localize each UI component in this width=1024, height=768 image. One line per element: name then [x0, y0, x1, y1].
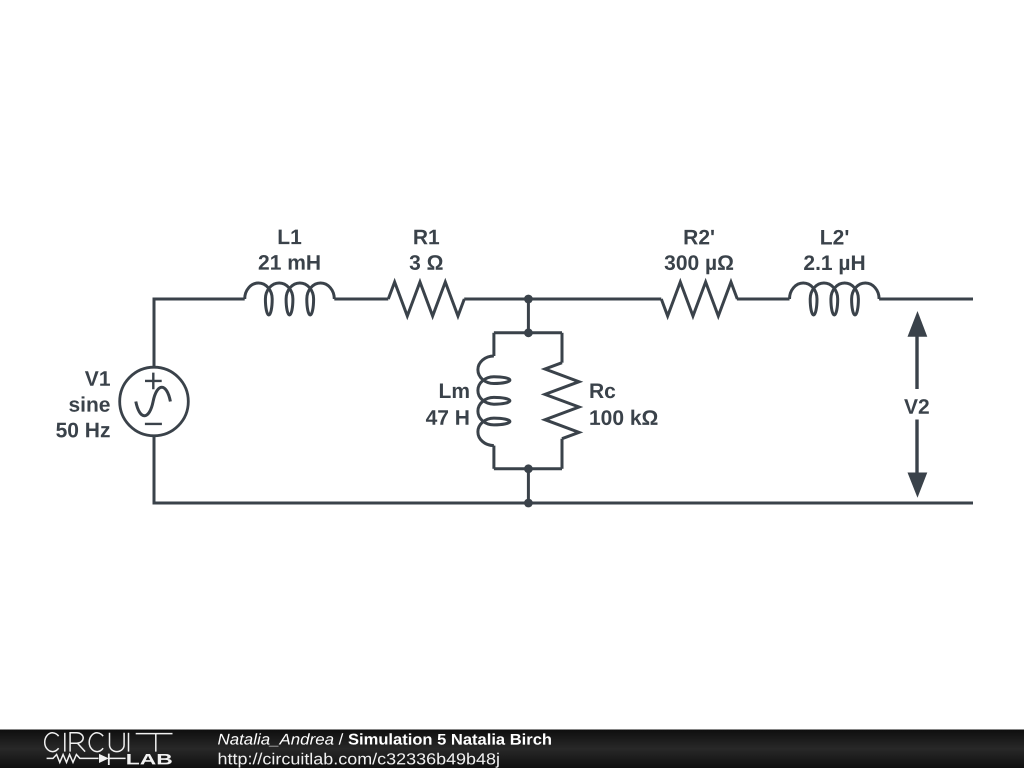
inductor Lm	[478, 333, 510, 469]
voltage annotation arrow V2	[908, 311, 928, 498]
node junction on bottom rail	[524, 499, 533, 508]
svg-text:47 H: 47 H	[426, 407, 470, 430]
inductor L1	[245, 283, 335, 315]
wire R2' to L2'	[737, 298, 790, 301]
wire shunt top lid	[494, 331, 562, 334]
svg-text:sine: sine	[68, 394, 110, 417]
wire R1 to R2' through node	[464, 298, 661, 301]
wire L1 to R1	[334, 298, 388, 301]
svg-text:R1: R1	[413, 226, 440, 249]
svg-text:V1: V1	[85, 368, 111, 391]
wire bottom rail	[154, 436, 973, 503]
svg-text:LAB: LAB	[126, 751, 173, 768]
wire shunt bottom to bottom rail	[527, 469, 530, 503]
svg-text:21 mH: 21 mH	[258, 252, 321, 275]
svg-text:R2': R2'	[683, 226, 715, 249]
svg-text:L1: L1	[277, 226, 302, 249]
node junction shunt bottom	[524, 464, 533, 473]
svg-text:50 Hz: 50 Hz	[56, 419, 111, 442]
svg-text:300 µΩ: 300 µΩ	[664, 252, 734, 275]
svg-text:2.1 µH: 2.1 µH	[803, 252, 865, 275]
svg-text:http://circuitlab.com/c32336b4: http://circuitlab.com/c32336b49b48j	[217, 751, 500, 768]
wire top-left corner from V1 to L1	[154, 299, 245, 367]
svg-text:V2: V2	[904, 396, 930, 419]
voltage source V1	[120, 367, 189, 436]
resistor Rc	[545, 333, 579, 469]
svg-text:Rc: Rc	[589, 380, 616, 403]
inductor L2'	[790, 283, 880, 315]
svg-text:Lm: Lm	[438, 380, 470, 403]
svg-text:100 kΩ: 100 kΩ	[589, 407, 658, 430]
svg-text:3 Ω: 3 Ω	[409, 252, 443, 275]
svg-text:Natalia_Andrea / Simulation 5: Natalia_Andrea / Simulation 5 Natalia Bi…	[217, 732, 552, 749]
node junction on top rail	[524, 295, 533, 304]
wire shunt bottom lid	[494, 467, 562, 470]
wire node to shunt top	[527, 299, 530, 333]
CircuitLab logo CIRCUIT wordmark	[45, 733, 173, 752]
wire L2' to right end	[879, 298, 973, 301]
resistor R2'	[661, 282, 737, 316]
node junction shunt top	[524, 328, 533, 337]
CircuitLab logo resistor-diode glyph	[47, 754, 126, 765]
svg-text:L2': L2'	[820, 226, 850, 249]
footer bar	[0, 730, 1024, 768]
resistor R1	[388, 282, 464, 316]
